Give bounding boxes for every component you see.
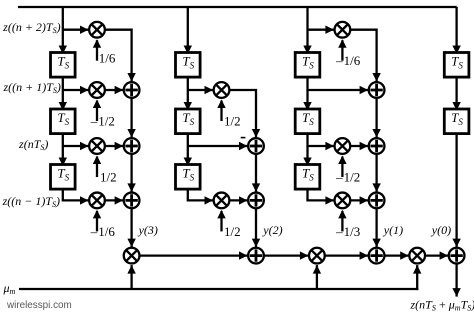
wire mu_m bus [19, 288, 418, 290]
bottom multiplier MB1 (mu) [124, 248, 140, 264]
wire M3 output into adder A2 [106, 142, 124, 150]
wire M1 output to adder A1 top [106, 30, 136, 82]
svg-text:1/2: 1/2 [100, 170, 117, 185]
adder A2 [124, 138, 140, 154]
coefficient label -1/2 with up arrow into M8 [335, 156, 360, 185]
wire output arrow from AB3 [452, 264, 460, 297]
delay T10 (Ts) [444, 53, 469, 78]
svg-text:1/6: 1/6 [99, 51, 116, 66]
wire tap z(nTs) into adder A4 (minus input) [188, 142, 248, 150]
multiplier M2 coefficient -1/2 [89, 82, 105, 98]
wire mu branch up into MB1 [127, 265, 135, 289]
wire AB1 to multiplier MB2 [265, 251, 309, 259]
wire A4 to A5 [252, 155, 260, 192]
wire MB2 to adder AB2 [325, 251, 368, 259]
delay T4 (Ts) [176, 53, 201, 78]
wire MB3 to adder AB3 [426, 251, 448, 259]
delay T8 (Ts) [295, 109, 320, 134]
coefficient label -1/3 with up arrow into M9 [335, 210, 360, 239]
wire AB2 to multiplier MB3 [385, 251, 409, 259]
wire T4 to T5 [184, 76, 192, 110]
wire T5 to T6 [184, 133, 192, 166]
delay T6 (Ts) [176, 165, 201, 190]
multiplier M8 coefficient -1/2 [335, 138, 351, 154]
adder A5 [248, 193, 264, 209]
minus sign on adder A4 input [241, 137, 246, 139]
bottom adder AB1 [248, 248, 264, 264]
svg-text:– 1/6: – 1/6 [335, 53, 361, 68]
wire M5 output to adder A4 top [230, 90, 260, 138]
wire T9 output to multiplier M9 [308, 188, 334, 205]
svg-text:z((n − 1)TS): z((n − 1)TS) [2, 194, 60, 209]
delay T9 (Ts) [295, 165, 320, 190]
wire tap z((n+2)Ts) into multiplier M7 [308, 26, 334, 34]
wire T3 output to multiplier M4 [63, 188, 89, 205]
coefficient label 1/2 with up arrow into M5 [217, 100, 240, 129]
wire y(0) from T11 into bottom adder AB3 [452, 133, 460, 248]
wire mu branch up into MB2 [313, 265, 321, 289]
wire tap z((n+1)Ts) into multiplier M2 [63, 86, 89, 94]
wire A7 to A8 [372, 155, 380, 192]
delay T5 (Ts) [176, 109, 201, 134]
coefficient label 1/2 with up arrow into M3 [93, 156, 117, 185]
multiplier M7 coefficient -1/6 [335, 22, 351, 38]
wire tap z((n+1)Ts) into multiplier M5 [188, 86, 213, 94]
multiplier M9 coefficient -1/3 [335, 193, 351, 209]
wire M8 output into adder A7 [351, 142, 368, 150]
wire col3 drop from bus into delay T7 [303, 7, 311, 54]
multiplier M3 coefficient 1/2 [89, 138, 105, 154]
wire M9 output into adder A8 [351, 196, 368, 204]
adder A8 [369, 193, 385, 209]
wire M6 output into adder A5 [230, 196, 248, 204]
delay T3 (Ts) [51, 165, 76, 190]
bottom multiplier MB3 (mu) [409, 248, 425, 264]
bottom adder AB2 [369, 248, 385, 264]
wire y(1) from A8 into bottom adder AB2 [372, 209, 380, 247]
delay T7 (Ts) [295, 53, 320, 78]
multiplier M6 coefficient 1/2 [214, 193, 230, 209]
svg-text:z(nTS + μmTS): z(nTS + μmTS) [410, 298, 474, 313]
adder A1 [124, 82, 140, 98]
wire M2 output into adder A1 [106, 86, 124, 94]
coefficient label -1/6 with up arrow into M4 [90, 210, 116, 239]
wire tap z(nTs) into multiplier M8 [308, 142, 334, 150]
wire T1 to T2 [59, 76, 67, 110]
wire A1 to A2 [127, 99, 135, 138]
bottom adder AB3 [449, 248, 465, 264]
svg-text:z((n + 2)TS): z((n + 2)TS) [2, 20, 60, 35]
coefficient label -1/2 with up arrow into M2 [90, 100, 115, 129]
adder A4 (subtracts z(nTs)) [248, 138, 264, 154]
multiplier M5 coefficient 1/2 [214, 82, 230, 98]
svg-text:y(2): y(2) [262, 223, 282, 237]
svg-text:– 1/2: – 1/2 [90, 114, 115, 129]
wire T7 to T8 [303, 76, 311, 110]
svg-text:1/2: 1/2 [224, 224, 241, 239]
adder A3 [124, 193, 140, 209]
bottom multiplier MB2 (mu) [309, 248, 325, 264]
wire T6 output to multiplier M6 [188, 188, 213, 205]
wire A6 to A7 [372, 99, 380, 138]
wire M7 output to adder A6 top [351, 30, 381, 82]
svg-text:wirelesspi.com: wirelesspi.com [6, 300, 72, 311]
wire tap z((n+1)Ts) into adder A6 [308, 86, 369, 94]
delay T2 (Ts) [51, 109, 76, 134]
svg-text:y(0): y(0) [431, 223, 451, 237]
coefficient label 1/2 with up arrow into M6 [217, 210, 240, 239]
wire M4 output into adder A3 [106, 196, 124, 204]
wire A2 to A3 [127, 155, 135, 192]
wire MB1 to adder AB1 [140, 251, 247, 259]
svg-text:1/2: 1/2 [224, 114, 241, 129]
svg-text:z((n + 1)TS): z((n + 1)TS) [2, 80, 60, 95]
wire T2 to T3 [59, 133, 67, 166]
svg-text:y(1): y(1) [383, 223, 403, 237]
multiplier M4 coefficient -1/6 [89, 193, 105, 209]
multiplier M1 coefficient 1/6 [89, 22, 105, 38]
coefficient label -1/6 with up arrow into M7 [335, 39, 361, 68]
wire tap z((n+2)Ts) into multiplier M1 [63, 26, 89, 34]
wire y(2) from A5 into bottom adder AB1 [252, 209, 260, 247]
svg-text:– 1/2: – 1/2 [335, 170, 360, 185]
coefficient label 1/6 with up arrow into M1 [93, 39, 116, 65]
wire T10 to T11 [452, 76, 460, 110]
svg-text:– 1/6: – 1/6 [90, 224, 116, 239]
wire col4 drop from bus into delay T10 [452, 7, 460, 54]
delay T1 (Ts) [51, 53, 76, 78]
wire mu branch up into MB3 [413, 265, 421, 290]
svg-text:– 1/3: – 1/3 [335, 224, 360, 239]
svg-text:z(nTS): z(nTS) [18, 137, 48, 152]
wire tap z(nTs) into multiplier M3 [63, 142, 89, 150]
wire col2 drop from bus into delay T4 [184, 7, 192, 54]
svg-text:μm: μm [3, 281, 16, 296]
adder A7 [369, 138, 385, 154]
delay T11 (Ts) [444, 109, 469, 134]
wire T8 to T9 [303, 133, 311, 166]
wire top input bus [18, 6, 457, 8]
adder A6 [369, 82, 385, 98]
wire y(3) from A3 into bottom multiplier MB1 [127, 209, 135, 247]
svg-text:y(3): y(3) [138, 223, 158, 237]
wire col1 drop from bus into delay T1 [59, 7, 67, 54]
